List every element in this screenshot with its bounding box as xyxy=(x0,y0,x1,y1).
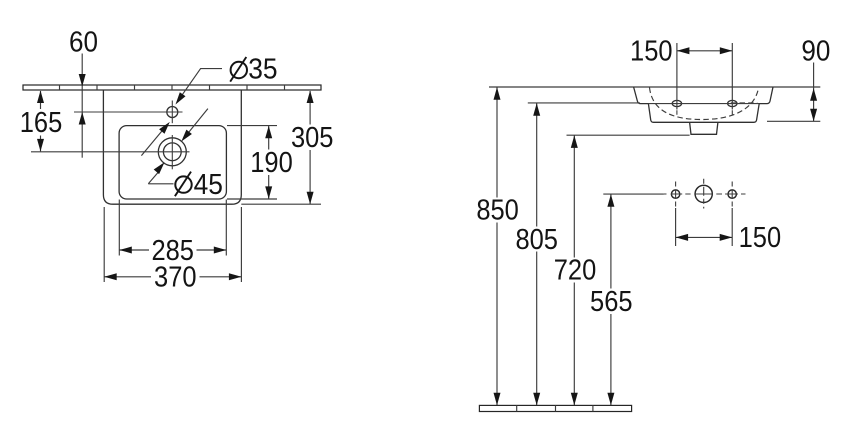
dim 565 xyxy=(590,194,664,405)
svg-text:305: 305 xyxy=(291,122,334,154)
basin inner bowl xyxy=(119,126,226,199)
dim 150 bottom xyxy=(676,208,782,254)
drain fitting detail xyxy=(664,179,746,209)
basin rim profile xyxy=(634,87,773,122)
svg-text:850: 850 xyxy=(476,195,519,227)
svg-text:165: 165 xyxy=(20,107,63,139)
dim 285 xyxy=(119,200,226,267)
bowl hidden curve xyxy=(650,88,759,120)
leader dia45 xyxy=(148,109,208,184)
svg-text:150: 150 xyxy=(739,222,782,254)
basin outer outline xyxy=(103,90,241,204)
dim 165 xyxy=(20,91,63,152)
svg-text:45: 45 xyxy=(194,169,223,201)
svg-text:90: 90 xyxy=(801,36,830,68)
dim 370 xyxy=(104,207,241,293)
svg-text:370: 370 xyxy=(154,261,197,293)
floor band xyxy=(479,405,631,411)
label dia45 xyxy=(175,169,223,201)
dim 150 top xyxy=(630,35,732,109)
svg-text:60: 60 xyxy=(69,26,98,58)
label dia35 xyxy=(230,54,277,86)
svg-text:35: 35 xyxy=(248,54,277,86)
dim 720 xyxy=(554,135,690,405)
svg-text:190: 190 xyxy=(250,147,293,179)
dim 60 xyxy=(69,26,98,157)
mounting holes xyxy=(648,100,759,114)
dim 305 xyxy=(241,91,333,205)
dim 850 xyxy=(476,87,519,405)
svg-text:720: 720 xyxy=(554,255,597,287)
dim 805 xyxy=(515,103,640,405)
rim top line xyxy=(489,86,820,88)
tailpiece xyxy=(690,122,718,134)
dim 90 xyxy=(767,36,830,122)
wall band xyxy=(23,85,321,90)
hidden shelf dashes xyxy=(731,102,758,104)
dim 190 xyxy=(227,126,293,199)
faucet hole xyxy=(74,101,183,124)
svg-text:805: 805 xyxy=(515,224,558,256)
svg-text:150: 150 xyxy=(630,35,673,67)
leader dia35 xyxy=(141,69,222,156)
svg-text:565: 565 xyxy=(590,286,633,318)
drain circles xyxy=(31,135,190,169)
